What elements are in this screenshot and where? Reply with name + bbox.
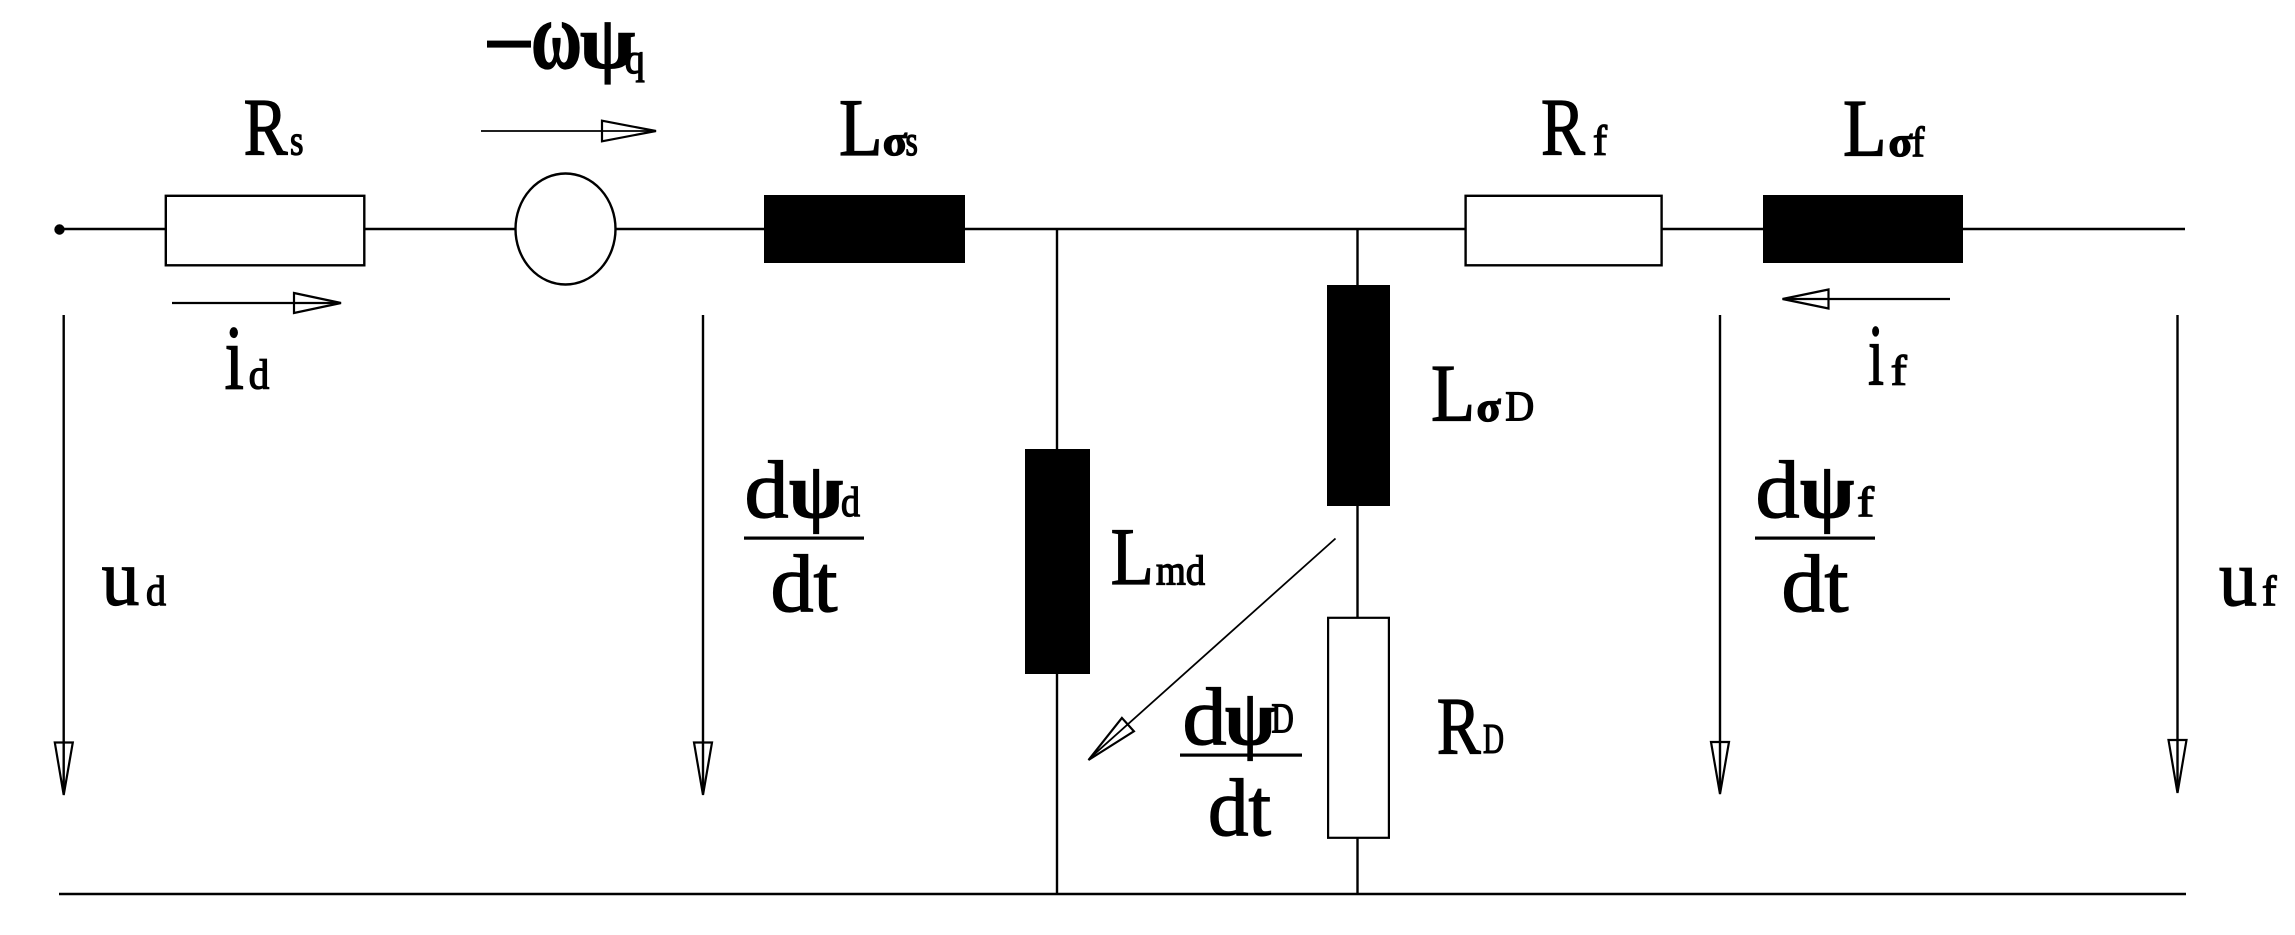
- svg-text:d: d: [249, 353, 270, 399]
- svg-text:dt: dt: [1208, 762, 1271, 853]
- svg-text:f: f: [1593, 119, 1607, 165]
- svg-text:i: i: [1868, 307, 1884, 404]
- resistor Rf: [1466, 196, 1662, 265]
- svg-text:u: u: [102, 535, 140, 623]
- svg-text:u: u: [2219, 535, 2257, 623]
- svg-text:ψ: ψ: [1800, 447, 1854, 534]
- label Lsigmaf: [1843, 83, 1925, 174]
- arrow dpsif/dt: [1711, 315, 1729, 794]
- svg-text:D: D: [1271, 697, 1293, 743]
- svg-text:s: s: [290, 119, 304, 165]
- label Rs: [244, 82, 304, 173]
- inductor Lsigmas: [764, 195, 965, 263]
- arrow dpsiD/dt diagonal: [1089, 539, 1336, 761]
- wire top rail: [59, 228, 2185, 230]
- svg-text:L: L: [839, 82, 883, 173]
- svg-text:σ: σ: [1477, 385, 1501, 431]
- svg-text:dt: dt: [771, 538, 838, 629]
- label LsigmaD: [1431, 348, 1534, 439]
- wire branch damper: [1356, 229, 1358, 894]
- node input terminal dot: [54, 224, 64, 234]
- svg-text:s: s: [906, 119, 918, 165]
- svg-text:ψ: ψ: [789, 447, 843, 534]
- svg-text:R: R: [1437, 681, 1481, 772]
- svg-text:ω: ω: [531, 0, 582, 89]
- inductor LsigmaD: [1327, 285, 1390, 506]
- arrow dpsid/dt: [694, 315, 712, 795]
- label id: [225, 307, 270, 409]
- resistor RD: [1328, 618, 1389, 838]
- wire bottom rail: [59, 893, 2186, 895]
- svg-text:dt: dt: [1782, 538, 1849, 629]
- label Lmd: [1111, 511, 1205, 602]
- label ud: [102, 535, 166, 623]
- arrow current if: [1783, 290, 1951, 309]
- svg-text:md: md: [1156, 549, 1205, 595]
- arrow omega-psi-q direction: [481, 121, 656, 142]
- svg-text:ψ: ψ: [1225, 674, 1275, 761]
- label dpsiD/dt fraction: [1180, 671, 1302, 853]
- svg-text:f: f: [1857, 480, 1874, 526]
- svg-text:f: f: [2262, 569, 2277, 615]
- label dpsif/dt fraction: [1755, 444, 1875, 629]
- svg-text:L: L: [1843, 83, 1887, 174]
- svg-text:D: D: [1483, 717, 1504, 763]
- svg-text:d: d: [841, 480, 860, 526]
- label dpsid/dt fraction: [744, 444, 864, 629]
- inductor Lmd: [1025, 449, 1090, 674]
- svg-text:d: d: [1183, 671, 1227, 762]
- label RD: [1437, 681, 1504, 772]
- inductor Lsigmaf: [1763, 195, 1963, 263]
- svg-text:f: f: [1912, 120, 1925, 166]
- svg-text:i: i: [225, 307, 245, 409]
- svg-text:R: R: [1541, 82, 1585, 173]
- svg-text:D: D: [1505, 385, 1534, 431]
- svg-text:d: d: [1756, 444, 1800, 535]
- resistor Rs: [166, 196, 364, 265]
- label uf: [2219, 535, 2277, 623]
- svg-text:L: L: [1431, 348, 1475, 439]
- label Rf: [1541, 82, 1607, 173]
- svg-text:σ: σ: [1889, 120, 1913, 166]
- label Lsigmas: [839, 82, 918, 173]
- source -omega psi q: [516, 174, 616, 285]
- wire branch Lmd: [1056, 229, 1058, 894]
- svg-text:d: d: [146, 569, 166, 615]
- svg-text:q: q: [625, 37, 645, 83]
- svg-text:σ: σ: [883, 119, 908, 165]
- svg-text:R: R: [244, 82, 288, 173]
- arrow voltage uf: [2169, 315, 2187, 793]
- arrow voltage ud: [55, 315, 73, 795]
- label if: [1868, 307, 1907, 404]
- svg-text:L: L: [1111, 511, 1154, 602]
- label -omega psi q: [487, 0, 645, 89]
- arrow current id: [172, 293, 341, 313]
- svg-text:d: d: [745, 444, 789, 535]
- svg-text:f: f: [1891, 349, 1907, 395]
